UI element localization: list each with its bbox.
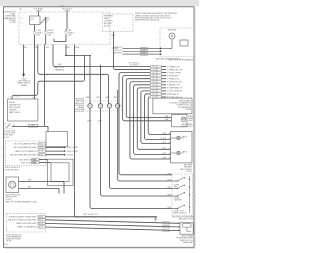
svg-text:5HAV: 5HAV xyxy=(60,4,65,7)
svg-text:RECEIVER (DLR) MODULE: RECEIVER (DLR) MODULE xyxy=(135,20,160,22)
svg-text:A: A xyxy=(169,147,170,150)
svg-text:ORN: ORN xyxy=(113,97,116,99)
svg-text:OF I/P): OF I/P) xyxy=(3,137,9,139)
svg-text:PNK: PNK xyxy=(38,219,41,221)
svg-text:GRY: GRY xyxy=(152,72,156,74)
svg-text:0.5 GRY 8: 0.5 GRY 8 xyxy=(130,65,138,67)
svg-text:85: 85 xyxy=(21,23,23,25)
svg-text:PART OF I/P WIRE HARNESS: PART OF I/P WIRE HARNESS xyxy=(168,59,193,62)
svg-text:4: 4 xyxy=(167,75,168,77)
svg-text:PNK: PNK xyxy=(164,223,167,225)
svg-text:C2: C2 xyxy=(87,121,89,123)
svg-text:JAMB SW: JAMB SW xyxy=(174,199,182,202)
svg-text:(CONT): (CONT) xyxy=(10,22,16,24)
svg-text:SW: SW xyxy=(174,186,177,188)
svg-text:A: A xyxy=(169,141,170,144)
svg-text:ORN: ORN xyxy=(165,116,168,118)
svg-text:ASSY: ASSY xyxy=(188,119,193,122)
svg-text:10: 10 xyxy=(167,94,169,96)
svg-text:HARNESS: HARNESS xyxy=(55,68,65,71)
svg-text:S410 0.8 PNK: S410 0.8 PNK xyxy=(67,151,79,153)
svg-text:ORN: ORN xyxy=(86,97,89,99)
svg-text:0.8 BLK: 0.8 BLK xyxy=(67,154,74,156)
svg-text:WHT: WHT xyxy=(141,51,144,53)
svg-text:ORN: ORN xyxy=(165,119,168,121)
svg-text:ORN: ORN xyxy=(38,216,41,218)
svg-text:ORN: ORN xyxy=(75,47,80,49)
svg-text:IGN 1 FEED: IGN 1 FEED xyxy=(171,72,182,74)
svg-text:LAMPS GROUND FEED: LAMPS GROUND FEED xyxy=(16,222,37,225)
svg-text:PNK: PNK xyxy=(38,147,41,149)
svg-text:S409 0.8 PNK: S409 0.8 PNK xyxy=(67,147,79,149)
svg-text:RLY: RLY xyxy=(30,20,34,22)
svg-text:WHT: WHT xyxy=(152,94,156,96)
svg-text:CARGO DOOR JAMB SW: CARGO DOOR JAMB SW xyxy=(15,150,37,153)
svg-text:BRN: BRN xyxy=(32,162,35,164)
svg-text:ORN: ORN xyxy=(105,97,108,99)
svg-text:FL30: FL30 xyxy=(4,244,8,246)
svg-text:S417 0.8 BLK 751: S417 0.8 BLK 751 xyxy=(83,214,98,216)
svg-text:AREA: AREA xyxy=(21,84,27,87)
svg-text:DIM SW LPS: DIM SW LPS xyxy=(171,82,183,84)
svg-text:HVAC LPS: HVAC LPS xyxy=(171,84,181,87)
svg-text:GRY: GRY xyxy=(164,230,167,232)
svg-text:A: A xyxy=(169,152,170,155)
svg-text:BACKUP LPS: BACKUP LPS xyxy=(171,68,183,71)
svg-text:YEL: YEL xyxy=(46,47,49,49)
svg-text:LP: LP xyxy=(182,138,184,140)
svg-text:CONN (I/P SIDE): CONN (I/P SIDE) xyxy=(5,169,19,171)
svg-text:BLK: BLK xyxy=(24,47,28,49)
svg-text:MODULE (CONT): MODULE (CONT) xyxy=(179,218,194,220)
svg-text:PIN A1: PIN A1 xyxy=(185,108,191,111)
svg-text:PANEL ILLUMINATION: PANEL ILLUMINATION xyxy=(17,226,37,229)
svg-text:GRY: GRY xyxy=(152,88,156,90)
svg-text:TAILGATE RELEASE SW FEED: TAILGATE RELEASE SW FEED xyxy=(10,153,37,156)
svg-text:CTSY LPS: CTSY LPS xyxy=(113,50,122,52)
svg-text:86: 86 xyxy=(21,18,23,20)
svg-text:7: 7 xyxy=(167,85,168,87)
svg-text:ORN: ORN xyxy=(32,159,35,161)
svg-text:DOME LPS: DOME LPS xyxy=(113,47,123,49)
svg-text:PARK LPS: PARK LPS xyxy=(171,65,181,68)
svg-text:DOME LP: DOME LP xyxy=(171,94,180,96)
svg-text:ASHTRAY LP: ASHTRAY LP xyxy=(171,87,183,90)
svg-text:A: A xyxy=(169,137,170,140)
svg-text:A: A xyxy=(178,221,179,224)
svg-text:PANEL SWITCH: PANEL SWITCH xyxy=(174,211,187,214)
svg-text:2: 2 xyxy=(20,7,22,11)
svg-text:INTERIOR LAMPS FUSED FEED: INTERIOR LAMPS FUSED FEED xyxy=(9,216,37,219)
svg-text:CARGO: CARGO xyxy=(182,135,188,138)
svg-text:SW: SW xyxy=(45,22,48,24)
svg-text:5: 5 xyxy=(167,78,168,80)
svg-text:1: 1 xyxy=(167,66,168,68)
svg-text:(ILCM): (ILCM) xyxy=(104,26,110,28)
svg-text:ORN: ORN xyxy=(141,54,144,56)
svg-text:(BATT FEED): (BATT FEED) xyxy=(9,111,21,114)
svg-text:BLOCK DET: BLOCK DET xyxy=(74,111,85,113)
svg-text:LT GRN: LT GRN xyxy=(151,69,158,71)
svg-text:6: 6 xyxy=(167,81,168,83)
svg-text:BLK: BLK xyxy=(39,223,42,225)
svg-text:REAR SEAT: REAR SEAT xyxy=(183,241,194,244)
svg-text:BLK: BLK xyxy=(165,226,168,228)
svg-text:GRY: GRY xyxy=(38,227,41,229)
svg-text:ORN: ORN xyxy=(111,35,116,37)
svg-text:DOOR LOCKS: DOOR LOCKS xyxy=(181,126,193,128)
svg-text:SW BATT: SW BATT xyxy=(171,74,180,77)
svg-text:A: A xyxy=(178,229,179,232)
svg-text:LT GRN: LT GRN xyxy=(160,138,167,140)
svg-text:ASHTRAY: ASHTRAY xyxy=(168,29,177,32)
svg-text:A: A xyxy=(178,225,179,228)
svg-text:CARGO: CARGO xyxy=(182,150,188,153)
svg-text:RADIO ILL: RADIO ILL xyxy=(171,78,180,81)
svg-text:A: A xyxy=(169,132,170,135)
svg-text:BLK: BLK xyxy=(39,151,42,153)
svg-text:(CONT): (CONT) xyxy=(186,171,193,173)
svg-text:PART OF I/P WIRE HARNESS CONN: PART OF I/P WIRE HARNESS CONN xyxy=(5,200,37,203)
svg-text:ORN: ORN xyxy=(141,48,144,50)
svg-text:OF I/P: OF I/P xyxy=(6,241,12,243)
svg-text:C1: C1 xyxy=(97,121,99,123)
svg-text:BAT FEED: BAT FEED xyxy=(113,52,122,55)
svg-text:ORN: ORN xyxy=(96,97,99,99)
svg-text:BACKUP LPS BATT DOWN FEED: BACKUP LPS BATT DOWN FEED xyxy=(8,219,37,222)
svg-text:2: 2 xyxy=(167,69,168,71)
svg-text:CLUSTER ILL: CLUSTER ILL xyxy=(171,91,183,93)
svg-text:8: 8 xyxy=(167,88,168,90)
svg-text:CTSY: CTSY xyxy=(30,18,35,20)
svg-text:RH DOOR JAMB SW FEED: RH DOOR JAMB SW FEED xyxy=(13,146,37,149)
svg-text:LH DOOR JAMB SW FEED: LH DOOR JAMB SW FEED xyxy=(14,143,37,146)
svg-text:9: 9 xyxy=(167,91,168,93)
svg-text:PNK: PNK xyxy=(38,144,41,146)
svg-text:GRY: GRY xyxy=(38,154,41,156)
svg-text:A: A xyxy=(169,157,170,160)
svg-text:3: 3 xyxy=(167,72,168,74)
svg-text:LP: LP xyxy=(182,153,184,155)
